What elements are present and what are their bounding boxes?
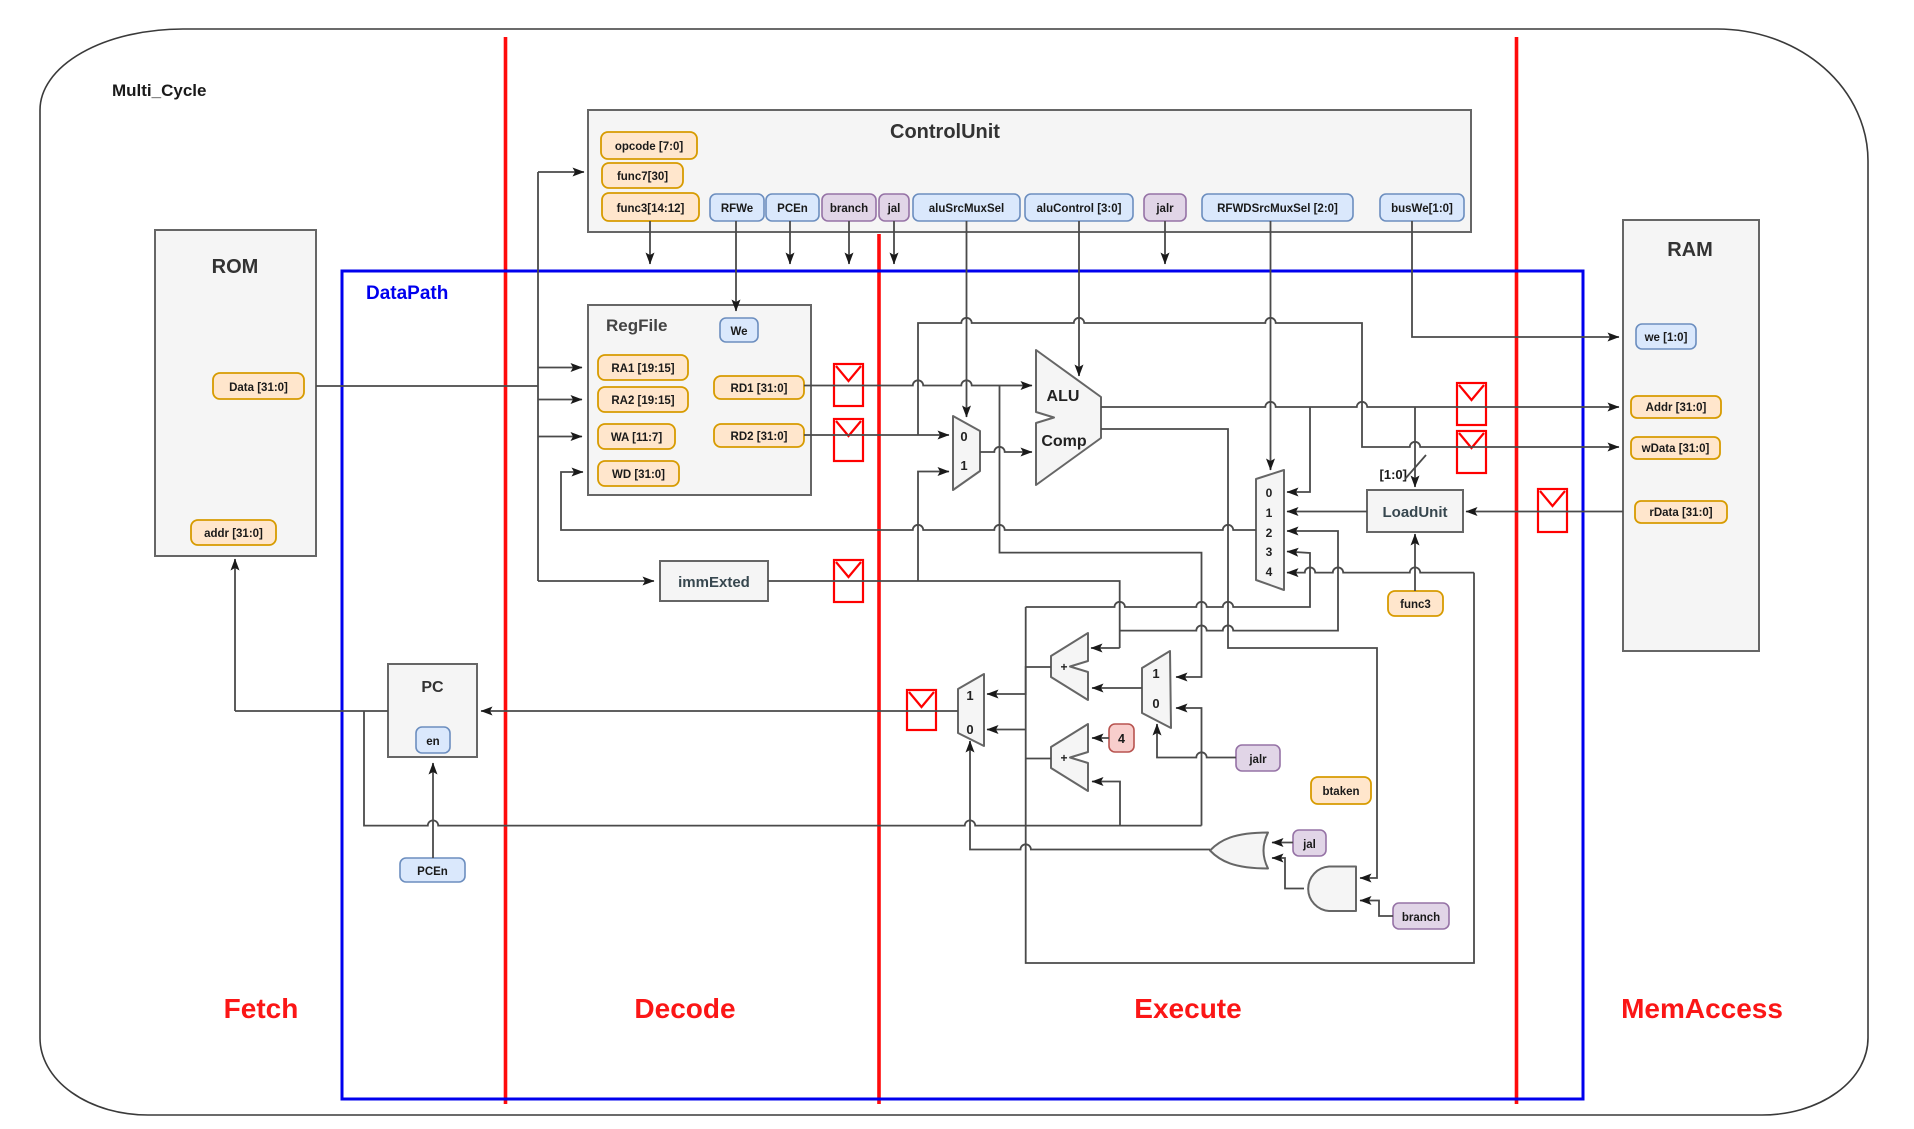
- wire instr to ControlUnit: [538, 171, 584, 173]
- PC box: [388, 664, 477, 757]
- wire busWe to RAM we: [1412, 221, 1619, 337]
- immExted box: [660, 561, 768, 601]
- label branch: [1393, 903, 1449, 929]
- CU output jalr: [1144, 194, 1186, 221]
- svg-text:2: 2: [1266, 526, 1273, 540]
- PC port en: [416, 727, 450, 753]
- CU output busWe[1:0]: [1380, 194, 1464, 221]
- CU output func3[14:12]: [602, 193, 699, 221]
- wire jal drop: [893, 221, 895, 264]
- svg-text:RD2 [31:0]: RD2 [31:0]: [731, 431, 788, 443]
- wire loop to WD mux input 4: [1287, 567, 1474, 572]
- svg-text:0: 0: [1266, 486, 1273, 500]
- CU output aluSrcMuxSel: [913, 194, 1020, 221]
- wire jalr to jalrBase mux select: [1157, 724, 1236, 758]
- wire instr to RA2: [538, 399, 582, 401]
- svg-text:opcode [7:0]: opcode [7:0]: [615, 141, 684, 153]
- svg-text:We: We: [730, 326, 747, 338]
- svg-text:btaken: btaken: [1322, 786, 1359, 798]
- pipeline register FF before RAM Addr: [1457, 383, 1486, 425]
- DataPath region box: [342, 271, 1583, 1099]
- wire func3 drop: [649, 221, 651, 264]
- svg-text:aluSrcMuxSel: aluSrcMuxSel: [929, 203, 1004, 215]
- svg-text:RD1 [31:0]: RD1 [31:0]: [731, 383, 788, 395]
- wire RFWe to RegFile We: [735, 221, 737, 311]
- RegFile port RA1[19:15]: [598, 355, 688, 380]
- mux PCnext 1/0: [958, 674, 984, 746]
- svg-text:MemAccess: MemAccess: [1621, 993, 1783, 1024]
- svg-text:0: 0: [960, 429, 967, 444]
- RAM box: [1623, 220, 1759, 651]
- svg-text:+: +: [1060, 660, 1067, 674]
- svg-text:busWe[1:0]: busWe[1:0]: [1391, 203, 1453, 215]
- svg-text:4: 4: [1266, 565, 1273, 579]
- wire PCplus4 to PCnext mux input 0: [987, 729, 1026, 731]
- wire aluSrcMuxSel to aluSrc mux select: [966, 221, 968, 417]
- wire PC out: [235, 710, 388, 712]
- wire RD2 to aluSrc mux input 0: [804, 434, 949, 436]
- wire PC to PCplus4 adder: [1092, 782, 1120, 826]
- wire Comp to AND gate (btaken): [1101, 429, 1377, 878]
- label jal: [1293, 830, 1326, 856]
- svg-text:RFWe: RFWe: [721, 203, 753, 215]
- stage divider line Fetch/Decode: [504, 37, 508, 1104]
- wire instr to immExted: [538, 580, 654, 582]
- svg-text:PC: PC: [421, 679, 444, 696]
- pipeline register FF after RD2: [834, 419, 863, 461]
- svg-text:[1:0]: [1:0]: [1380, 467, 1407, 482]
- pipeline register FF after rData: [1538, 489, 1567, 532]
- svg-text:ALU: ALU: [1047, 388, 1080, 405]
- wire PCplus4 adder out: [1026, 758, 1051, 760]
- label func3 near LoadUnit: [1388, 591, 1443, 616]
- wire branch to AND gate: [1360, 901, 1393, 917]
- svg-text:WD [31:0]: WD [31:0]: [612, 469, 665, 481]
- wire branch adder out to PCnext mux input 1: [987, 667, 1051, 694]
- svg-text:1: 1: [1266, 506, 1273, 520]
- CU output opcode[7:0]: [601, 132, 697, 159]
- wire aluSrc mux out to ALU input b: [980, 447, 1032, 452]
- svg-text:3: 3: [1266, 545, 1273, 559]
- RegFile port RA2[19:15]: [598, 387, 688, 412]
- svg-text:Multi_Cycle: Multi_Cycle: [112, 81, 206, 100]
- mux aluSrc 0/1: [953, 416, 980, 490]
- svg-text:en: en: [426, 736, 439, 748]
- stage divider line Execute/MemAccess: [1515, 37, 1519, 1104]
- wire aluControl to ALU: [1078, 221, 1080, 376]
- label PCEn near PC: [400, 858, 465, 882]
- svg-text:PCEn: PCEn: [777, 203, 808, 215]
- svg-text:ControlUnit: ControlUnit: [890, 121, 1000, 143]
- wire LoadUnit to WD mux input 1: [1287, 511, 1367, 513]
- svg-text:RAM: RAM: [1667, 239, 1713, 261]
- svg-text:RA1 [19:15]: RA1 [19:15]: [611, 363, 674, 375]
- wire RFWDSrcMuxSel to WD mux select: [1270, 221, 1272, 470]
- RAM port rData[31:0]: [1635, 501, 1727, 523]
- wire immExted to riser: [768, 581, 1120, 648]
- ROM port Data[31:0]: [213, 373, 304, 399]
- pipeline register FF after immExted: [834, 560, 863, 602]
- svg-text:jalr: jalr: [1248, 754, 1267, 766]
- RAM port Addr[31:0]: [1631, 396, 1721, 418]
- svg-text:RegFile: RegFile: [606, 316, 667, 335]
- CU output RFWe: [710, 194, 764, 221]
- svg-text:Decode: Decode: [634, 993, 735, 1024]
- CU output func7[30]: [602, 163, 683, 188]
- label 4 constant: [1109, 724, 1134, 752]
- svg-text:ROM: ROM: [212, 256, 259, 278]
- RegFile port RD2[31:0]: [714, 424, 804, 447]
- svg-text:branch: branch: [1402, 912, 1440, 924]
- RegFile port We: [720, 318, 758, 342]
- svg-text:we [1:0]: we [1:0]: [1644, 332, 1688, 344]
- svg-text:0: 0: [966, 722, 973, 737]
- wire instr to RA1: [538, 367, 582, 369]
- label jalr: [1236, 745, 1280, 771]
- wire jalrBase mux out to branch adder: [1092, 687, 1142, 689]
- svg-text:WA [11:7]: WA [11:7]: [611, 432, 663, 444]
- adder branch target: [1051, 633, 1088, 700]
- wire ROM Data to distribution riser: [316, 385, 538, 387]
- wire Addr[1:0] to LoadUnit: [1414, 407, 1416, 487]
- svg-text:branch: branch: [830, 203, 868, 215]
- wire RAM rData to LoadUnit: [1466, 511, 1623, 513]
- wire rs1 to jalrBase mux input 1: [1000, 386, 1202, 678]
- pipeline register FF before RAM wData: [1457, 431, 1486, 473]
- svg-text:+: +: [1060, 751, 1067, 765]
- svg-text:LoadUnit: LoadUnit: [1383, 504, 1448, 521]
- svg-text:PCEn: PCEn: [417, 866, 448, 878]
- wire loop to WD mux input 3: [1026, 552, 1310, 608]
- wire PCEn drop: [789, 221, 791, 264]
- ROM port addr[31:0]: [191, 520, 276, 545]
- pipeline register FF before PC: [907, 690, 936, 730]
- svg-text:RFWDSrcMuxSel [2:0]: RFWDSrcMuxSel [2:0]: [1217, 203, 1338, 215]
- wire jal to OR gate: [1272, 842, 1293, 844]
- wire instruction riser: [537, 172, 539, 581]
- LoadUnit box: [1367, 490, 1463, 532]
- wire RD2 to RAM wData: [918, 318, 1619, 447]
- svg-text:0: 0: [1152, 696, 1159, 711]
- svg-text:func3[14:12]: func3[14:12]: [617, 203, 685, 215]
- wire imm to WD mux input 2: [1120, 531, 1338, 631]
- wire imm to branch adder: [1091, 647, 1120, 649]
- svg-text:Comp: Comp: [1041, 433, 1087, 450]
- wire WD mux out to RegFile WD: [561, 472, 1256, 530]
- CU output PCEn: [766, 194, 819, 221]
- svg-text:4: 4: [1118, 732, 1125, 746]
- svg-text:Execute: Execute: [1134, 993, 1241, 1024]
- ALU / Comp unit: [1036, 350, 1101, 485]
- wire ALU result to RAM Addr: [1101, 402, 1619, 407]
- svg-text:aluControl [3:0]: aluControl [3:0]: [1037, 203, 1122, 215]
- RAM port wData[31:0]: [1631, 437, 1720, 459]
- svg-text:func3: func3: [1400, 599, 1431, 611]
- CU output RFWDSrcMuxSel[2:0]: [1202, 194, 1353, 221]
- ROM box: [155, 230, 316, 556]
- wire PC to ROM addr: [234, 559, 236, 711]
- wire PCnext mux out to PC: [481, 710, 958, 712]
- wire PC distribution: [364, 711, 1202, 826]
- svg-text:addr [31:0]: addr [31:0]: [204, 528, 263, 540]
- svg-text:Data [31:0]: Data [31:0]: [229, 382, 288, 394]
- wire imm to aluSrc mux input 1: [918, 472, 949, 582]
- RegFile port RD1[31:0]: [714, 376, 804, 399]
- RegFile port WD[31:0]: [598, 461, 679, 486]
- wire PC to jalrBase mux input 0: [1176, 708, 1202, 826]
- wire PCplus4 loop: [1026, 573, 1474, 963]
- RegFile box: [588, 305, 811, 495]
- CU output branch: [822, 194, 876, 221]
- svg-text:rData [31:0]: rData [31:0]: [1649, 507, 1712, 519]
- svg-text:func7[30]: func7[30]: [617, 171, 668, 183]
- wire instr to WA: [538, 436, 582, 438]
- svg-text:1: 1: [960, 458, 967, 473]
- adder PC plus 4: [1051, 724, 1088, 791]
- svg-text:RA2 [19:15]: RA2 [19:15]: [611, 395, 674, 407]
- label btaken: [1311, 777, 1371, 804]
- RegFile port WA[11:7]: [598, 424, 675, 449]
- wire PCSrc OR out to PCnext mux select: [970, 741, 1210, 850]
- wire ALU result to WD mux input 0: [1287, 407, 1310, 492]
- svg-text:jal: jal: [887, 203, 901, 215]
- wire func3 to LoadUnit: [1414, 534, 1416, 591]
- svg-text:jal: jal: [1302, 839, 1316, 851]
- pipeline register FF after RD1: [834, 364, 863, 406]
- mux RFWD 0-4: [1256, 470, 1284, 590]
- wire PCEn to PC en: [432, 763, 434, 858]
- svg-text:DataPath: DataPath: [366, 283, 448, 304]
- svg-text:Addr [31:0]: Addr [31:0]: [1646, 402, 1707, 414]
- CU output aluControl[3:0]: [1025, 194, 1133, 221]
- OR gate PCSrc: [1210, 833, 1268, 869]
- wire AND out to OR gate: [1272, 858, 1304, 889]
- RAM port we[1:0]: [1636, 324, 1696, 349]
- wire RD1 to ALU input a: [804, 380, 1032, 385]
- mux jalrBase 1/0: [1142, 651, 1171, 728]
- AND gate branch taken: [1308, 867, 1356, 912]
- svg-text:jalr: jalr: [1155, 203, 1174, 215]
- ControlUnit box: [588, 110, 1471, 232]
- wire jalr drop: [1164, 221, 1166, 264]
- CU output jal: [879, 194, 909, 221]
- svg-text:immExted: immExted: [678, 574, 750, 591]
- svg-text:wData [31:0]: wData [31:0]: [1641, 443, 1710, 455]
- wire branch drop: [848, 221, 850, 264]
- svg-text:1: 1: [966, 688, 973, 703]
- wire 4 to PCplus4 adder: [1092, 737, 1109, 739]
- svg-text:1: 1: [1152, 666, 1159, 681]
- svg-text:Fetch: Fetch: [224, 993, 299, 1024]
- stage divider line Decode/Execute: [877, 234, 881, 1104]
